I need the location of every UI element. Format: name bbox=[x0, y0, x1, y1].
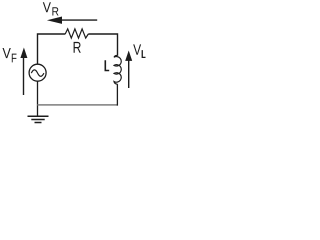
inductor L coil bbox=[114, 56, 121, 85]
ground bbox=[28, 116, 49, 122]
arrow VF (points up) bbox=[20, 48, 27, 96]
resistor R bbox=[65, 29, 88, 38]
wire: left vertical (top corner to source top) bbox=[38, 34, 66, 64]
wire: top right segment (resistor to top-right corner) bbox=[88, 34, 117, 56]
label L bbox=[105, 60, 110, 71]
wire: bottom horizontal (grey) bbox=[38, 104, 118, 106]
arrow VR (points left) bbox=[47, 17, 97, 24]
wire: right vertical (coil bottom to bottom corner) bbox=[116, 84, 118, 106]
label VF bbox=[2, 48, 16, 62]
label VR bbox=[43, 2, 59, 15]
wire: left vertical (source bottom to ground) bbox=[37, 81, 39, 116]
sine wave inside source bbox=[31, 70, 44, 76]
voltage source VF (AC) bbox=[29, 64, 46, 81]
arrow VL (points up) bbox=[125, 51, 132, 89]
label VL bbox=[133, 44, 145, 58]
label R bbox=[74, 42, 81, 53]
